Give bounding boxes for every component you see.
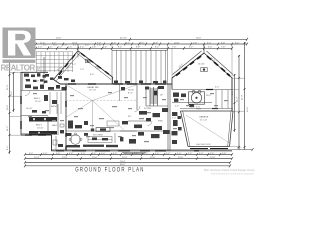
- dimension ticks top L2: [9, 43, 248, 46]
- svg-text:6'-2": 6'-2": [235, 42, 240, 44]
- left vertical dimension line 2: [13, 72, 15, 112]
- right dimension texts (rotated): [232, 90, 249, 112]
- scattered small annotation marks: [28, 92, 228, 142]
- svg-text:3'-8": 3'-8": [63, 45, 68, 47]
- bottom dimension line D1: [25, 154, 232, 156]
- left gable base link left: [54, 80, 61, 85]
- north wall window segments: [68, 83, 166, 85]
- left gable slope text labels: [57, 59, 99, 72]
- north wall of main body: [60, 83, 172, 85]
- svg-text:GREAT RM.: GREAT RM.: [87, 86, 99, 89]
- svg-text:4'-8": 4'-8": [103, 47, 108, 49]
- right gable base left wall: [171, 78, 173, 90]
- svg-text:4'-0": 4'-0": [85, 45, 90, 47]
- svg-text:3'-6": 3'-6": [92, 153, 97, 155]
- bottom wall left wing: [21, 134, 52, 136]
- svg-text:KITCHEN: KITCHEN: [93, 135, 103, 137]
- svg-text:4'-6": 4'-6": [113, 153, 118, 155]
- tub base marks: [189, 105, 194, 107]
- right gable slope C dim line offset: [173, 51, 202, 75]
- great room ceiling ray NW: [67, 85, 93, 101]
- svg-text:3'-6": 3'-6": [126, 42, 131, 44]
- svg-text:7'-0": 7'-0": [172, 47, 177, 49]
- svg-text:6'-0": 6'-0": [215, 87, 219, 89]
- right gable slope C outer: [172, 53, 204, 78]
- svg-text:Plan Courtesy of Red Creek Des: Plan Courtesy of Red Creek Design Group: [204, 168, 255, 172]
- dimension ticks top L1: [9, 38, 248, 41]
- bottom dimension ticks D1: [24, 153, 233, 156]
- svg-text:8'-2": 8'-2": [155, 47, 160, 49]
- left gable base link right: [112, 78, 114, 85]
- right wall upper: [231, 78, 233, 111]
- svg-text:8'-4": 8'-4": [7, 145, 9, 150]
- svg-text:5'-2": 5'-2": [166, 153, 171, 155]
- svg-text:62'-10": 62'-10": [120, 38, 127, 40]
- pwd door arc: [148, 121, 153, 126]
- ensuite fixtures left of tub: [173, 93, 186, 102]
- right gable window marks slope C: [176, 56, 201, 76]
- left gable slope A inner: [56, 53, 81, 82]
- bottom dimension line D4: [25, 165, 230, 167]
- under-gable texts: [72, 64, 94, 76]
- right room labels: [175, 87, 219, 109]
- kitchen bench rect: [107, 121, 119, 126]
- svg-text:9'x 9': 9'x 9': [128, 92, 133, 94]
- symbol under right peak: [201, 68, 207, 72]
- REALTOR logo box: [3, 28, 36, 59]
- svg-text:BATH: BATH: [51, 105, 57, 108]
- svg-text:10'-2": 10'-2": [190, 107, 195, 109]
- svg-text:NOOK: NOOK: [128, 90, 135, 92]
- stairs treads: [150, 89, 157, 103]
- left wing hall wall: [21, 90, 66, 92]
- svg-text:4'-0": 4'-0": [53, 45, 58, 47]
- top dimension texts row2: [40, 42, 240, 44]
- left wing fixtures upper band: [24, 73, 46, 82]
- svg-text:10'x11': 10'x11': [37, 127, 44, 129]
- porch grid vertical planks: [37, 52, 73, 73]
- svg-text:5'-0": 5'-0": [177, 153, 182, 155]
- symbol under left peak: [86, 60, 91, 63]
- svg-text:13'-0": 13'-0": [62, 157, 68, 159]
- great room center post line: [92, 101, 94, 132]
- marks left of slope A: [44, 74, 54, 83]
- ensuite wall: [172, 102, 212, 104]
- svg-text:9'-8": 9'-8": [136, 47, 141, 49]
- garage left wall inner: [183, 111, 190, 147]
- right vertical dimension line a: [234, 74, 236, 132]
- svg-text:15'-8": 15'-8": [210, 157, 216, 159]
- left wing bottom wall inner: [21, 133, 52, 135]
- svg-text:3'-6": 3'-6": [97, 45, 102, 47]
- svg-text:5'-6": 5'-6": [68, 47, 73, 49]
- center deck top edge: [112, 49, 168, 51]
- svg-text:16'x 18': 16'x 18': [89, 90, 97, 92]
- bottom wall left wing windows: [25, 134, 46, 136]
- left gable slope B outer: [78, 51, 113, 78]
- apex drop line: [77, 51, 79, 58]
- great room west wall: [65, 84, 67, 151]
- svg-text:13'-2": 13'-2": [122, 157, 128, 159]
- porch grid horizontal planks: [36, 52, 73, 71]
- closet lines right: [216, 90, 228, 109]
- svg-text:18'-0": 18'-0": [196, 38, 202, 40]
- great room ceiling dashed ridge: [66, 100, 136, 102]
- svg-text:21'x 22': 21'x 22': [200, 119, 208, 121]
- garage roof diagonal: [186, 115, 231, 144]
- svg-text:FOYER: FOYER: [144, 108, 152, 110]
- right gable window marks slope D: [207, 56, 230, 76]
- svg-text:5'-0": 5'-0": [155, 153, 160, 155]
- left wing wall B vertical: [47, 117, 49, 136]
- bottom dimension texts D1: [29, 153, 227, 155]
- svg-text:5'-6": 5'-6": [175, 106, 179, 108]
- svg-text:6'-8": 6'-8": [221, 42, 226, 44]
- left wall window segments: [20, 96, 22, 129]
- svg-text:4'-8": 4'-8": [69, 153, 74, 155]
- garage right wall inner: [228, 111, 231, 147]
- top wall extension line: [10, 72, 21, 74]
- left wing left wall: [20, 72, 22, 135]
- left vertical dimension line: [9, 62, 11, 154]
- svg-text:34'-0": 34'-0": [242, 94, 244, 100]
- svg-text:GROUND FLOOR PLAN: GROUND FLOOR PLAN: [75, 167, 144, 174]
- svg-text:PWD: PWD: [158, 121, 163, 123]
- svg-text:12'-0": 12'-0": [7, 84, 9, 90]
- right rooms north wall: [172, 89, 232, 91]
- left dimension ticks: [9, 72, 15, 153]
- svg-text:5'-2": 5'-2": [81, 153, 86, 155]
- bedroom side marks: [32, 110, 37, 113]
- left wing closet lines: [50, 92, 61, 114]
- step wall vertical: [51, 135, 53, 151]
- svg-text:10'-6": 10'-6": [174, 42, 180, 44]
- right gable slope D dim line offset: [207, 51, 234, 75]
- kitchen counters lower: [66, 133, 123, 147]
- left wing bed dark band: [29, 117, 57, 122]
- foyer door arc: [135, 106, 141, 112]
- right gable slope texts: [178, 57, 215, 69]
- bottom dimension line D2: [25, 158, 232, 160]
- deck bottom fixture marks: [114, 81, 166, 84]
- svg-text:7'-8": 7'-8": [221, 47, 226, 49]
- wall seg marks right: [206, 89, 213, 91]
- left wing door arc: [25, 91, 30, 96]
- porch steps at entry: [122, 152, 146, 153]
- center interior walls: [120, 84, 170, 151]
- garage right wall (slanted): [230, 111, 234, 147]
- dimension ticks top L3: [35, 47, 233, 50]
- svg-text:5'-0": 5'-0": [38, 47, 43, 49]
- REALTOR logo R: [8, 31, 31, 56]
- svg-text:5'-0": 5'-0": [43, 153, 48, 155]
- svg-text:11'x12': 11'x12': [35, 101, 42, 103]
- nook divider wall: [119, 84, 121, 101]
- bottom dimension texts D2: [34, 157, 216, 159]
- top dimension texts row1: [56, 38, 202, 40]
- center deck plank lines: [112, 50, 168, 83]
- svg-text:5'-2": 5'-2": [144, 153, 149, 155]
- svg-text:HALL: HALL: [52, 124, 58, 127]
- great room south wall: [66, 130, 137, 132]
- bedroom divider vline: [57, 104, 59, 135]
- svg-text:16x8 OH DOOR: 16x8 OH DOOR: [196, 144, 211, 146]
- svg-text:5'-6": 5'-6": [56, 153, 61, 155]
- left wing labels: [26, 98, 58, 129]
- garage top wall: [181, 110, 234, 112]
- kitchen counters upper: [68, 121, 88, 129]
- stairs rails: [150, 87, 157, 106]
- extension horizontals left side: [10, 96, 22, 135]
- small right-bottom dimension mark: [232, 149, 253, 151]
- svg-text:6'-6": 6'-6": [90, 74, 94, 76]
- svg-text:5'-2": 5'-2": [58, 47, 63, 49]
- svg-text:14'x16': 14'x16': [198, 64, 205, 66]
- svg-text:10'-6": 10'-6": [7, 104, 9, 110]
- left gable slope B inner: [77, 53, 111, 79]
- svg-text:21'-4": 21'-4": [237, 96, 239, 102]
- under-gable fixture marks: [58, 76, 75, 82]
- left wing interior vertical: [43, 57, 45, 84]
- svg-text:KIT.: KIT.: [128, 116, 132, 118]
- svg-text:5'-2": 5'-2": [188, 153, 193, 155]
- svg-text:3'-0": 3'-0": [172, 118, 176, 120]
- left wing fixtures band: [25, 85, 66, 91]
- svg-text:4'-2": 4'-2": [73, 45, 78, 47]
- right vertical dimension line b: [238, 55, 240, 150]
- top dimension texts row3: [38, 45, 226, 49]
- svg-text:3'-6": 3'-6": [112, 42, 117, 44]
- ensuite wall 2: [180, 108, 233, 110]
- right vertical dimension line c: [244, 42, 246, 150]
- left wing wall B: [21, 115, 48, 117]
- svg-text:5'-0": 5'-0": [199, 153, 204, 155]
- bottom wall window segments: [56, 150, 199, 152]
- left dimension texts (rotated): [7, 84, 13, 150]
- great room ceiling ray NE: [93, 85, 137, 101]
- left wing dresser dark band: [29, 131, 57, 135]
- svg-text:4'-6": 4'-6": [48, 47, 53, 49]
- svg-text:5'-0": 5'-0": [123, 153, 128, 155]
- left gable window marks slope B: [81, 53, 109, 74]
- island inner marks: [88, 139, 112, 141]
- svg-text:BED 3: BED 3: [36, 125, 43, 127]
- kitchen fireplace: [96, 128, 110, 132]
- garage left wall (slanted): [181, 111, 189, 147]
- REALTOR logo bar: [3, 60, 36, 63]
- left wing upper texts: [25, 80, 39, 83]
- left wing top wall: [21, 71, 48, 73]
- main bottom wall: [52, 150, 233, 152]
- svg-text:5'-8": 5'-8": [222, 153, 227, 155]
- svg-text:12'-6": 12'-6": [178, 157, 184, 159]
- left wall inner line: [22, 72, 24, 90]
- svg-text:REALTOR: REALTOR: [1, 64, 36, 73]
- bottom dimension ticks D2: [24, 157, 233, 160]
- great room ceiling ray SW: [67, 101, 93, 118]
- REALTOR logo registered mark: [36, 66, 40, 70]
- right gable peak vertical to dims: [203, 44, 205, 53]
- svg-text:R: R: [37, 66, 39, 70]
- svg-text:5'-8": 5'-8": [92, 47, 97, 49]
- garage door band: [190, 148, 208, 150]
- svg-text:3'-2": 3'-2": [43, 45, 48, 47]
- svg-text:GARAGE: GARAGE: [199, 116, 209, 119]
- svg-text:12'-4": 12'-4": [34, 157, 40, 159]
- mudroom fixtures: [172, 112, 182, 144]
- left gable window marks slope A: [59, 55, 75, 76]
- svg-text:3'-6": 3'-6": [154, 42, 159, 44]
- stair dark landing: [154, 91, 157, 96]
- entry coat wall line: [114, 133, 116, 143]
- hall labels center: [128, 90, 163, 123]
- svg-text:11'-2": 11'-2": [7, 125, 9, 131]
- svg-text:6'-2": 6'-2": [29, 153, 34, 155]
- svg-text:5'-8": 5'-8": [193, 42, 198, 44]
- svg-text:6'-6": 6'-6": [208, 47, 213, 49]
- svg-text:6'-0": 6'-0": [80, 47, 85, 49]
- extension horizontals right side: [230, 78, 245, 146]
- kitchen labels: [93, 135, 103, 137]
- center fixtures: [121, 86, 170, 144]
- top dimension line L2: [10, 43, 247, 45]
- great room west wall dark segs: [65, 86, 67, 150]
- svg-text:5'-6": 5'-6": [210, 153, 215, 155]
- fireplace inner mark: [100, 128, 106, 130]
- svg-text:12'-8": 12'-8": [150, 157, 156, 159]
- svg-text:5'-0": 5'-0": [35, 81, 39, 83]
- svg-text:BED 2: BED 2: [34, 98, 41, 100]
- svg-text:44'-6": 44'-6": [247, 106, 249, 112]
- svg-text:24'-6": 24'-6": [56, 38, 62, 40]
- svg-text:5'-2": 5'-2": [72, 64, 76, 66]
- svg-text:13'-6": 13'-6": [92, 157, 98, 159]
- tub surround: [189, 92, 205, 104]
- svg-text:3'-6": 3'-6": [140, 42, 145, 44]
- svg-text:10'x11': 10'x11': [26, 108, 33, 110]
- right gable slope D outer: [204, 53, 232, 78]
- left gable peak vertical to dims: [77, 44, 79, 51]
- bottom dimension ticks D3 D4: [24, 161, 231, 167]
- kitchen island: [88, 137, 112, 143]
- svg-text:76'-4": 76'-4": [120, 161, 126, 163]
- right dimension ticks: [234, 42, 246, 148]
- extension verticals deck edges: [112, 44, 232, 78]
- svg-text:8'-6": 8'-6": [118, 47, 123, 49]
- water closet fixtures: [55, 136, 57, 150]
- svg-text:7'-0": 7'-0": [80, 69, 84, 71]
- svg-text:4'-0": 4'-0": [237, 148, 242, 150]
- svg-text:8'-2": 8'-2": [189, 47, 194, 49]
- left gable slope A outer: [54, 51, 79, 80]
- svg-text:5'-0": 5'-0": [101, 153, 106, 155]
- garage bottom wall: [188, 146, 230, 148]
- svg-text:6'-2": 6'-2": [11, 90, 13, 95]
- svg-text:4'-6": 4'-6": [134, 153, 139, 155]
- bottom dimension line D3: [25, 162, 230, 164]
- top dimension line L1: [10, 38, 247, 40]
- svg-text:9'-6": 9'-6": [25, 80, 29, 82]
- left wing fixture marks mid: [44, 95, 57, 104]
- svg-text:6'-4": 6'-4": [207, 42, 212, 44]
- breakfast table circle: [71, 135, 81, 145]
- tub lobes: [192, 90, 195, 93]
- svg-text:W.I.C.: W.I.C.: [206, 95, 212, 97]
- tub circle: [191, 93, 201, 103]
- bottom wall inner line: [52, 148, 233, 150]
- svg-text:Not intended for construction: Not intended for construction purposes: [211, 173, 255, 176]
- top dimension line L3: [36, 47, 232, 49]
- great room ceiling ray SE: [93, 101, 125, 131]
